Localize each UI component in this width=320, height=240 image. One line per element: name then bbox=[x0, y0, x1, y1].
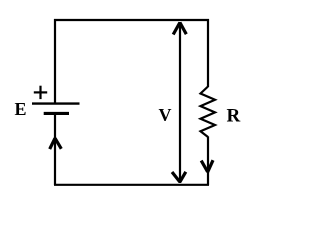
wire bottom bbox=[54, 184, 209, 186]
wire left upper (top to battery) bbox=[54, 19, 56, 104]
wire left lower (battery to bottom) bbox=[54, 113, 56, 185]
current arrow down on right wire bbox=[201, 160, 213, 172]
svg-text:R: R bbox=[227, 106, 241, 127]
svg-text:V: V bbox=[159, 105, 172, 125]
wire right lower (resistor to bottom) bbox=[207, 137, 209, 186]
battery E negative plate bbox=[44, 112, 69, 115]
wire right upper (top to resistor) bbox=[207, 19, 209, 87]
label + (battery polarity) bbox=[34, 86, 47, 99]
wire top bbox=[54, 19, 209, 21]
resistor R zigzag bbox=[201, 87, 216, 138]
svg-text:E: E bbox=[15, 99, 27, 119]
current arrow up on left wire bbox=[50, 138, 62, 149]
voltage arrowhead top bbox=[173, 23, 186, 35]
voltage arrowhead bottom bbox=[172, 172, 186, 182]
battery E positive plate bbox=[32, 102, 80, 104]
voltage arrow V shaft bbox=[179, 22, 181, 183]
